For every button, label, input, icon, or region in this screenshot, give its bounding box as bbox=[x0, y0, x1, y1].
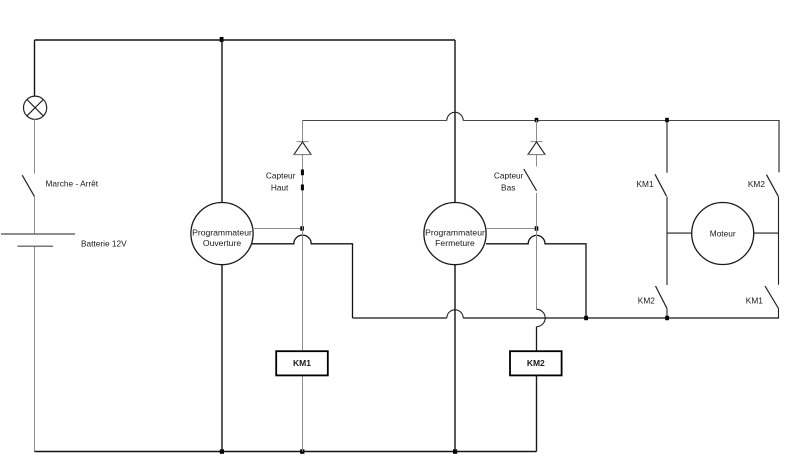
node junction dot y120 x=667 bbox=[665, 118, 669, 122]
programmateur fermeture U2 bbox=[424, 203, 486, 265]
wire ouverture to capteur haut node bbox=[253, 228, 301, 230]
svg-text:Moteur: Moteur bbox=[710, 229, 736, 239]
node junction dot bottom rail x=222 bbox=[220, 449, 224, 454]
node junction dot bottom rail x=455 bbox=[453, 449, 457, 454]
capteur bas diode D2 bbox=[527, 142, 546, 155]
wire capteur haut column bbox=[302, 155, 304, 452]
node junction dot bottom rail x=302 bbox=[300, 449, 304, 454]
wire lamp to switch bbox=[34, 119, 36, 173]
capteur haut diode D1 bbox=[293, 142, 312, 155]
switch S1 Marche-Arret blade bbox=[22, 175, 34, 196]
svg-text:Haut: Haut bbox=[271, 182, 289, 192]
wire coil KM2 to bottom rail bbox=[536, 375, 538, 451]
wire right bridge left column upper bbox=[666, 120, 668, 173]
wire left column middle bbox=[666, 197, 668, 285]
coil KM2 bbox=[510, 351, 562, 375]
wire lamp top bbox=[34, 40, 36, 96]
svg-text:Bas: Bas bbox=[501, 182, 515, 192]
node junction dot y318 x=586 bbox=[584, 316, 588, 320]
svg-text:Batterie 12V: Batterie 12V bbox=[81, 238, 127, 248]
programmateur ouverture U1 bbox=[191, 203, 253, 265]
wire hop over x=455 on y=318 bbox=[447, 310, 463, 318]
wire programmateur ouverture bottom bbox=[221, 265, 223, 452]
capteur bas contact blade bbox=[524, 169, 537, 191]
svg-text:Programmateur: Programmateur bbox=[425, 227, 485, 237]
svg-text:Programmateur: Programmateur bbox=[192, 227, 252, 237]
capteur haut contact dash 2 bbox=[301, 185, 304, 191]
wire y120 corner down to capteur haut diode bbox=[302, 120, 304, 142]
contact KM1 top-left blade bbox=[655, 174, 667, 196]
capteur haut contact dash 1 bbox=[301, 170, 304, 176]
node junction dot top rail x=222 bbox=[220, 37, 224, 42]
wire mid rail y=120 bbox=[303, 120, 780, 122]
svg-text:KM1: KM1 bbox=[293, 358, 311, 368]
coil KM1 bbox=[276, 351, 328, 375]
svg-text:KM2: KM2 bbox=[638, 295, 655, 305]
svg-text:KM1: KM1 bbox=[746, 295, 763, 305]
motor M1 Moteur bbox=[692, 203, 754, 265]
wire right bridge right column upper bbox=[778, 120, 780, 172]
node junction dot y120 x=536.5 bbox=[535, 118, 539, 122]
svg-text:Ouverture: Ouverture bbox=[203, 238, 241, 248]
node junction dot capteur bas x=536.5 bbox=[535, 226, 539, 230]
wire bottom rail bbox=[35, 451, 537, 453]
svg-text:Fermeture: Fermeture bbox=[435, 238, 475, 248]
wire left column lower stub bbox=[666, 309, 668, 319]
wire battery to bottom rail bbox=[34, 247, 36, 452]
node junction dot y318 x=667 bbox=[665, 316, 669, 320]
svg-text:KM2: KM2 bbox=[527, 358, 545, 368]
wire capteur bas above diode bbox=[536, 120, 538, 141]
node junction dot capteur haut x=302 bbox=[300, 226, 304, 230]
wire y=318 rail bbox=[353, 317, 780, 319]
wire hop over x=455 on y=120 bbox=[447, 112, 463, 120]
svg-text:Capteur: Capteur bbox=[494, 171, 524, 181]
wire top rail bbox=[35, 39, 456, 41]
contact KM1 bottom-right blade bbox=[765, 286, 779, 309]
wire motor right lead bbox=[754, 232, 779, 234]
wire fermeture bridge to x=586 (hop over x=536.5) bbox=[486, 235, 586, 318]
wire programmateur fermeture bottom bbox=[454, 265, 456, 452]
wire right column middle bbox=[778, 197, 780, 285]
wire programmateur ouverture top bbox=[221, 40, 223, 203]
lamp H1 bbox=[23, 96, 46, 119]
svg-text:KM1: KM1 bbox=[637, 179, 654, 189]
wire capteur bas below diode bbox=[536, 155, 538, 167]
wire hop to coil KM2 bbox=[536, 327, 538, 351]
svg-text:Capteur: Capteur bbox=[266, 171, 296, 181]
wire right column lower stub bbox=[778, 309, 780, 319]
wire motor left lead bbox=[667, 232, 692, 234]
battery B1 Batterie 12V bbox=[1, 234, 75, 246]
wire ouverture bridge to y318 (hop over x=302) bbox=[252, 235, 353, 318]
wire top rail drop to programmateur fermeture bbox=[454, 40, 456, 203]
wire switch to battery bbox=[34, 197, 36, 234]
wire capteur bas to hop bbox=[536, 193, 538, 309]
contact KM2 top-right blade bbox=[767, 175, 779, 197]
wire fermeture to capteur bas node bbox=[486, 228, 535, 230]
wire vertical hop over y=318 bbox=[537, 309, 546, 326]
svg-text:KM2: KM2 bbox=[748, 179, 765, 189]
svg-text:Marche - Arrêt: Marche - Arrêt bbox=[46, 179, 99, 189]
contact KM2 bottom-left blade bbox=[656, 286, 668, 309]
